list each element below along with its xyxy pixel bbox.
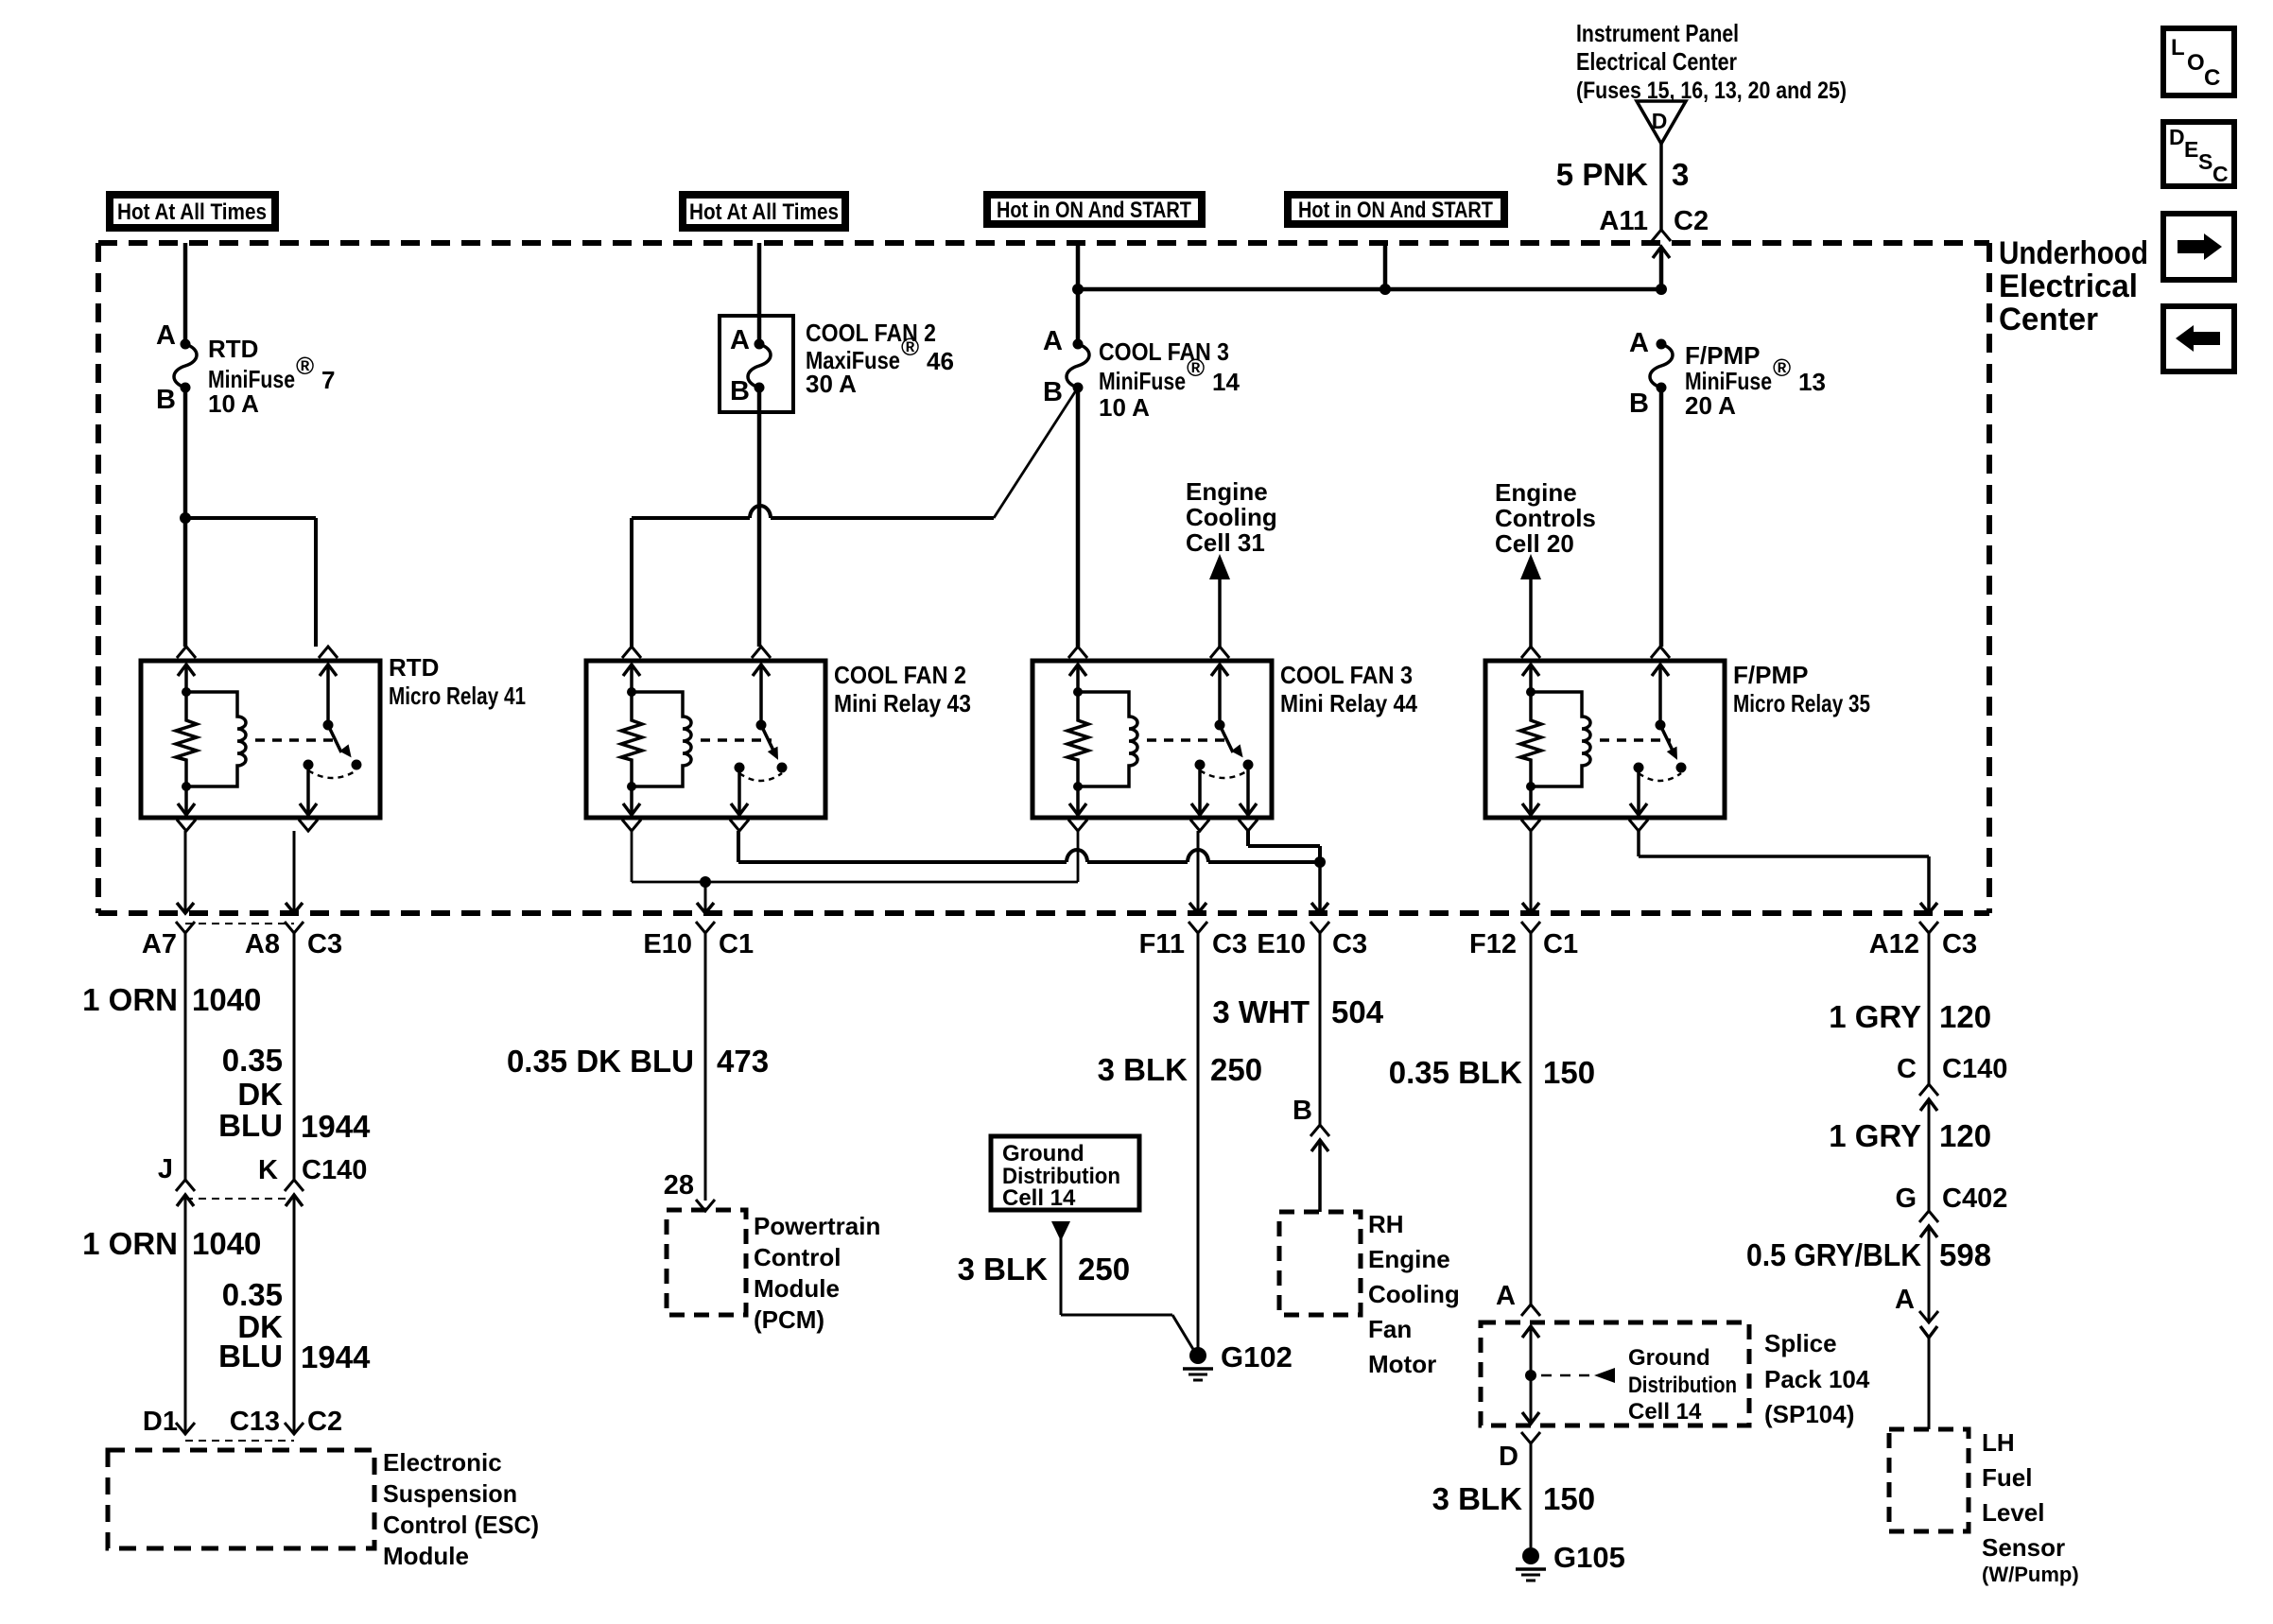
wire: A7 to ESC module pin D1 [184,933,187,1180]
svg-text:A: A [1629,328,1649,358]
svg-text:®: ® [1187,354,1205,382]
svg-text:Cell 14: Cell 14 [1002,1185,1076,1211]
Splice Pack 104 dashed box [1481,1322,1749,1425]
svg-text:E10: E10 [643,929,692,959]
svg-text:E: E [2184,137,2198,162]
relay Mini Relay 44 coil pin (top) [1068,647,1087,658]
wire: RTD fuse B down to relay 41 coil [183,388,188,647]
bus hop over relay 44 switch output wire [1188,850,1208,862]
svg-text:COOL FAN 3: COOL FAN 3 [1280,661,1413,689]
LH Fuel Level Sensor dashed box [1889,1429,1969,1531]
svg-text:1 GRY: 1 GRY [1829,1118,1921,1153]
svg-text:Micro Relay 41: Micro Relay 41 [389,682,526,710]
wire: relay 35 switch output to connector A12 [1637,831,1640,856]
wire: relay 44 coil output down to coil bus [1077,831,1080,882]
relay Micro Relay 41 switch arm [328,725,341,752]
wire: Hot At All Times feed to RTD fuse [183,243,188,344]
svg-text:Pack 104: Pack 104 [1764,1365,1870,1393]
wire: C402 to fuel level sensor pin A [1928,1226,1931,1322]
connector link dashed A7-A8 [185,923,294,924]
wire: F12/C1 to splice pack SP104 [1530,933,1533,1304]
svg-text:Cooling: Cooling [1186,503,1277,531]
relay COOL FAN 3 Mini Relay 44 box [1032,661,1272,818]
junction at F/PMP fuse feed [1656,284,1667,295]
off-page triangle connector D [1637,101,1686,144]
svg-text:3 WHT: 3 WHT [1212,994,1310,1029]
svg-text:Module: Module [383,1542,469,1570]
in-line connector C140 pin K [285,1180,304,1191]
svg-text:Powertrain: Powertrain [754,1212,880,1240]
svg-text:C2: C2 [307,1407,342,1437]
wire: drop to connector E10/C1 [704,882,707,912]
svg-text:Instrument Panel: Instrument Panel [1576,19,1739,47]
svg-text:0.35: 0.35 [222,1043,283,1078]
wire: ground distribution to G102 [1060,1238,1063,1315]
Electronic Suspension Control (ESC) Module dashed box [108,1450,374,1548]
svg-text:®: ® [296,352,314,380]
svg-text:120: 120 [1939,1118,1991,1153]
relay Mini Relay 43 actuation dashed link [701,738,772,742]
svg-text:C: C [2204,65,2220,91]
svg-text:C402: C402 [1942,1183,2007,1214]
svg-text:RTD: RTD [389,653,439,682]
svg-text:Motor: Motor [1368,1350,1436,1378]
svg-text:G105: G105 [1553,1541,1625,1574]
svg-text:Mini Relay 43: Mini Relay 43 [834,689,971,717]
svg-text:C140: C140 [302,1155,367,1185]
svg-text:0.5 GRY/BLK: 0.5 GRY/BLK [1746,1237,1921,1272]
svg-text:30 A: 30 A [806,370,857,398]
connector crossing F12/C1 [1522,903,1539,913]
relay Micro Relay 41 resistor [176,692,197,786]
svg-text:504: 504 [1331,994,1384,1029]
wire: C140 J to ESC module [184,1195,187,1434]
connector crossing E10/C3 [1311,903,1328,913]
svg-text:A: A [1043,326,1063,356]
svg-text:Underhood: Underhood [1999,235,2148,271]
relay Micro Relay 35 switch contact [1634,763,1644,773]
wire hop over COOL FAN 2 feed [750,506,771,518]
svg-text:3 BLK: 3 BLK [958,1252,1049,1287]
svg-text:Module: Module [754,1274,840,1303]
svg-text:B: B [1293,1096,1312,1126]
svg-text:1 ORN: 1 ORN [82,982,178,1017]
svg-text:B: B [730,376,750,406]
header box: Hot in ON And START (second) [1288,195,1504,224]
svg-text:473: 473 [717,1044,769,1079]
svg-text:Splice: Splice [1764,1329,1837,1357]
relay Mini Relay 44 switch output pin (bottom) [1198,765,1202,815]
wire: A8 to ESC module pin C13 [293,933,296,1180]
relay Micro Relay 41 switch common pin (top) [319,647,338,658]
svg-text:C140: C140 [1942,1054,2007,1084]
wire: IP electrical center to C2 connector [1659,144,1663,230]
relay Micro Relay 35 switch output pin (bottom) [1637,768,1640,815]
wire: A12/C3 to connector C140 pin C [1928,933,1931,1084]
connector crossing A7 [177,903,194,913]
relay RTD Micro Relay 41 box [141,661,380,818]
svg-text:250: 250 [1078,1252,1130,1287]
relay Micro Relay 35 coil pin (top) [1521,647,1540,658]
wire: C140 to C402 [1928,1099,1931,1211]
svg-text:Fan: Fan [1368,1315,1412,1343]
svg-text:Fuel: Fuel [1982,1463,2032,1492]
svg-text:G: G [1895,1183,1917,1214]
wire: relay 44 switch contact output to connector F11 [1197,831,1200,912]
svg-text:Hot At All Times: Hot At All Times [117,199,267,225]
svg-text:A: A [1895,1285,1915,1315]
svg-text:L: L [2171,35,2185,60]
svg-text:A: A [1496,1281,1516,1311]
svg-text:(W/Pump): (W/Pump) [1982,1563,2079,1586]
svg-text:Hot At All Times: Hot At All Times [689,199,839,225]
junction at second Hot in ON And START feed [1379,284,1391,295]
header box: Hot in ON And START (first) [987,195,1202,224]
wire: Hot in ON And START feed to COOL FAN 3 fuse [1076,243,1081,344]
svg-text:C13: C13 [230,1407,280,1437]
relay Mini Relay 43 coil [632,692,691,786]
wire: C140 K to ESC module [293,1195,296,1434]
DESC legend box [2163,122,2234,186]
relay Micro Relay 41 actuation dashed link [255,738,338,742]
underhood electrical center dashed boundary box [98,240,1989,246]
svg-text:LH: LH [1982,1428,2015,1457]
wire: C2 to bus junction [1659,247,1664,289]
relay F/PMP Micro Relay 35 box [1485,661,1725,818]
relay Mini Relay 43 switch arm [761,725,774,752]
relay Mini Relay 43 resistor [621,692,642,786]
svg-text:F/PMP: F/PMP [1733,661,1808,689]
svg-text:Cell 20: Cell 20 [1495,529,1574,558]
fuse COOL FAN 3 MiniFuse 14 10A [1073,339,1084,350]
wire: splice pack to ground G105 [1530,1443,1533,1547]
svg-text:E10: E10 [1257,929,1306,959]
svg-text:Engine: Engine [1186,477,1268,506]
svg-text:Control: Control [754,1243,841,1271]
svg-text:0.35 BLK: 0.35 BLK [1389,1055,1522,1090]
svg-text:1 ORN: 1 ORN [82,1226,178,1261]
svg-text:1944: 1944 [301,1339,371,1374]
svg-text:A8: A8 [245,929,280,959]
svg-text:B: B [1043,377,1063,407]
fuse COOL FAN 2 MaxiFuse 46 30A [757,316,762,344]
svg-text:13: 13 [1798,368,1826,396]
wire: COOL FAN 2 fuse B down to relay 43 switch [757,412,762,647]
fuse COOL FAN 2 MaxiFuse 46 box [720,316,793,412]
back arrow legend box [2163,306,2234,371]
svg-text:Cell 14: Cell 14 [1628,1399,1702,1425]
relay Mini Relay 43 switch contact [735,763,745,773]
splice ground distribution pointer [1541,1374,1594,1377]
svg-text:C3: C3 [307,929,342,959]
RH Engine Cooling Fan Motor dashed box [1279,1212,1361,1315]
relay Mini Relay 43 coil pin (bottom) [630,786,633,815]
relay Mini Relay 43 switch common pin (top) [752,647,771,658]
svg-text:1040: 1040 [192,982,261,1017]
svg-text:10 A: 10 A [208,389,259,418]
svg-text:D1: D1 [143,1407,178,1437]
svg-text:B: B [156,385,176,415]
relay Mini Relay 44 switch arm [1220,725,1233,752]
svg-text:(SP104): (SP104) [1764,1400,1854,1428]
connector crossing A12/C3 [1920,903,1937,913]
relay Micro Relay 35 coil [1531,692,1590,786]
svg-text:Control (ESC): Control (ESC) [383,1511,539,1539]
svg-text:DK: DK [237,1077,283,1112]
wire: relay 43 switch output to fan bus [737,831,740,862]
svg-text:C: C [2212,162,2229,186]
svg-text:D: D [1652,109,1668,133]
relay Mini Relay 44 switch common pin (top) [1210,647,1229,658]
relay Mini Relay 44 switch contact [1195,760,1206,770]
svg-text:46: 46 [927,347,954,375]
svg-text:G102: G102 [1221,1340,1293,1373]
connector crossing E10/C1 [697,903,714,913]
svg-text:®: ® [1773,354,1791,382]
junction: PCM control drop [700,876,711,888]
wire: Hot At All Times feed to COOL FAN 2 fuse [757,243,762,316]
wire: second Hot in ON And START drop to bus [1383,243,1388,289]
relay Mini Relay 44 resistor [1067,692,1088,786]
ground distribution arrow [1051,1221,1070,1241]
svg-text:14: 14 [1212,368,1240,396]
connector crossing A8/C3 [286,903,303,913]
svg-text:Electronic: Electronic [383,1448,502,1477]
svg-text:1 GRY: 1 GRY [1829,999,1921,1034]
junction: fan bus to connector E10/C3 [1314,856,1326,868]
svg-text:F/PMP: F/PMP [1685,341,1760,370]
svg-text:Center: Center [1999,302,2098,337]
svg-text:5 PNK: 5 PNK [1556,157,1648,192]
fuse F/PMP MiniFuse 13 20A [1657,339,1667,350]
svg-text:0.35 DK BLU: 0.35 DK BLU [507,1044,694,1079]
svg-text:Ground: Ground [1628,1345,1710,1371]
svg-text:C3: C3 [1212,929,1247,959]
relay COOL FAN 2 Mini Relay 43 box [586,661,825,818]
svg-text:Hot in ON And START: Hot in ON And START [997,198,1191,223]
svg-text:3 BLK: 3 BLK [1098,1052,1189,1087]
wire: F/PMP fuse B down to relay 35 switch [1659,388,1664,647]
svg-text:S: S [2198,149,2212,174]
relay Micro Relay 35 actuation dashed link [1600,738,1671,742]
svg-text:Cell 31: Cell 31 [1186,528,1265,557]
wire: branch to relay 41 switch [185,516,316,520]
relay Micro Relay 35 switch arm [1660,725,1674,752]
svg-text:MiniFuse: MiniFuse [1099,367,1186,395]
svg-text:20 A: 20 A [1685,391,1736,420]
forward arrow legend box [2163,214,2234,280]
svg-text:COOL FAN 2: COOL FAN 2 [834,661,966,689]
relay Micro Relay 41 coil [186,692,246,786]
svg-text:A: A [730,325,750,355]
svg-text:BLU: BLU [218,1339,283,1373]
splice junction [1525,1370,1536,1381]
connector crossing F11/C3 [1189,903,1206,913]
junction at COOL FAN 3 fuse feed [1072,284,1084,295]
connector link dashed J-K [185,1198,294,1200]
svg-text:3 BLK: 3 BLK [1432,1481,1523,1516]
relay Mini Relay 44 switch arm output pin (bottom) [1246,765,1250,815]
svg-text:C2: C2 [1674,206,1709,236]
ground G102 [1189,1347,1206,1364]
wire: E10/C1 to PCM pin 28 [704,933,707,1201]
wire: connector B to RH fan motor [1318,1140,1322,1212]
svg-text:O: O [2187,50,2205,76]
svg-text:RTD: RTD [208,335,258,363]
svg-text:150: 150 [1543,1055,1595,1090]
wire: relay 41 switch output to connector A8 [293,831,296,912]
splice output arrow [1522,1412,1539,1424]
wire: relay 43 coil output to coil bus [631,831,633,882]
svg-text:120: 120 [1939,999,1991,1034]
relay Micro Relay 41 coil pin (top) [177,647,196,658]
svg-text:D: D [1499,1442,1518,1472]
svg-text:C1: C1 [1543,929,1578,959]
svg-text:150: 150 [1543,1481,1595,1516]
relay Mini Relay 44 coil pin (bottom) [1076,786,1080,815]
svg-text:A7: A7 [142,929,177,959]
wire: COOL FAN 3 fuse B down to relay 44 coil [1076,388,1081,647]
svg-text:®: ® [901,333,919,361]
svg-text:Suspension: Suspension [383,1479,517,1508]
relay Micro Relay 35 coil pin (bottom) [1529,786,1533,815]
svg-text:Sensor: Sensor [1982,1533,2065,1562]
svg-text:3: 3 [1672,157,1689,192]
Ground Distribution Cell 14 box [991,1136,1139,1210]
coil control bus to PCM [632,881,1078,884]
LOC legend box [2163,28,2234,95]
svg-text:(Fuses 15, 16, 13, 20 and 25): (Fuses 15, 16, 13, 20 and 25) [1576,78,1847,104]
relay Mini Relay 44 coil [1078,692,1137,786]
svg-text:C3: C3 [1942,929,1977,959]
svg-text:Controls: Controls [1495,504,1596,532]
relay Micro Relay 35 resistor [1520,692,1541,786]
ESC module connector forks [176,1423,195,1434]
svg-text:1040: 1040 [192,1226,261,1261]
bus hop over relay 44 coil wire [1067,850,1087,862]
wire: COOL FAN 3 fuse B diagonal to relay 43 coil [994,388,1078,518]
svg-text:COOL FAN 3: COOL FAN 3 [1099,337,1229,366]
wire: relay 44 arm output jog [1246,831,1250,846]
svg-text:C: C [1897,1054,1917,1084]
wire: connector A to fuel level sensor [1928,1338,1931,1429]
wire: relay 41 coil output to connector A7 [184,831,187,912]
svg-text:Engine: Engine [1368,1245,1450,1273]
in-line connector C140 pin J [176,1180,195,1191]
svg-text:A12: A12 [1869,929,1919,959]
svg-text:A11: A11 [1599,206,1648,236]
svg-text:Ground: Ground [1002,1141,1084,1166]
svg-text:Engine: Engine [1495,478,1577,507]
svg-text:7: 7 [321,366,335,394]
header box: Hot At All Times (left) [110,195,275,228]
fan feed bus [738,860,1067,864]
svg-text:28: 28 [664,1170,694,1201]
svg-text:Electrical Center: Electrical Center [1576,47,1737,76]
svg-text:Hot in ON And START: Hot in ON And START [1298,198,1493,223]
svg-text:1944: 1944 [301,1109,371,1144]
svg-text:BLU: BLU [218,1108,283,1143]
svg-text:K: K [258,1155,278,1185]
svg-text:0.35: 0.35 [222,1277,283,1312]
svg-text:F12: F12 [1469,929,1517,959]
connector C2 crossing symbols [1652,230,1671,241]
relay Micro Relay 35 switch common pin (top) [1651,647,1670,658]
splice pack internal wire [1522,1326,1539,1338]
svg-text:Micro Relay 35: Micro Relay 35 [1733,689,1870,717]
svg-text:Electrical: Electrical [1999,268,2138,304]
wire: relay 35 coil output to connector F12 [1530,831,1533,912]
relay Micro Relay 41 switch output pin (bottom) [306,765,310,815]
svg-text:Mini Relay 44: Mini Relay 44 [1280,689,1417,717]
relay Micro Relay 41 coil pin (bottom) [184,786,188,815]
svg-text:C1: C1 [719,929,754,959]
splice pack pin D [1521,1432,1540,1443]
svg-text:10 A: 10 A [1099,393,1150,422]
ground G105 [1522,1547,1539,1564]
relay Mini Relay 43 coil pin (top) [622,647,641,658]
svg-text:(PCM): (PCM) [754,1305,824,1334]
relay Micro Relay 41 switch contact [304,760,314,770]
relay Mini Relay 44 actuation dashed link [1147,738,1230,742]
svg-text:Distribution: Distribution [1628,1373,1737,1398]
svg-text:B: B [1629,389,1649,419]
svg-text:F11: F11 [1139,929,1185,959]
fuse RTD MiniFuse 7 10A [181,339,191,350]
svg-text:598: 598 [1939,1237,1991,1272]
header box: Hot At All Times (second) [683,195,845,228]
wire: E10/C3 to RH fan motor connector B [1319,933,1322,1125]
junction: RTD fuse output branch [180,512,191,524]
svg-text:C3: C3 [1332,929,1367,959]
svg-text:J: J [158,1154,173,1184]
wire: F11/C3 to ground G102 [1197,933,1200,1349]
svg-text:Level: Level [1982,1498,2045,1527]
svg-text:RH: RH [1368,1210,1404,1238]
Powertrain Control Module (PCM) dashed box [667,1210,746,1315]
svg-text:Cooling: Cooling [1368,1280,1460,1308]
svg-text:D: D [2169,125,2185,149]
relay Mini Relay 43 switch output pin (bottom) [737,768,741,815]
wire: ignition feed bus [1078,287,1661,292]
svg-text:250: 250 [1210,1052,1262,1087]
svg-text:A: A [156,320,176,351]
